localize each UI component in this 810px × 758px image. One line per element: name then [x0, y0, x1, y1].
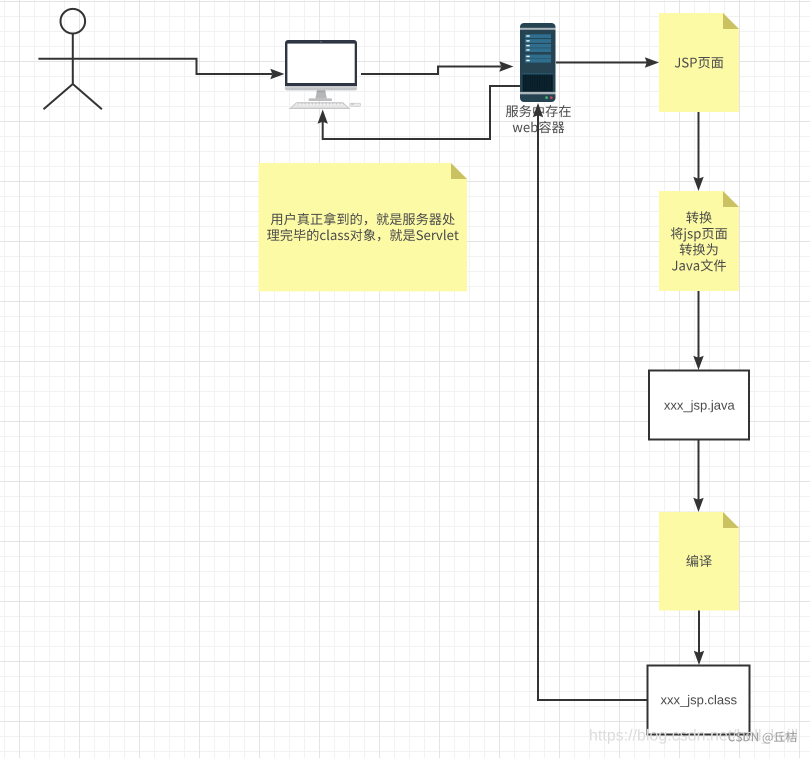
- box xxx_jsp.java: [649, 371, 749, 440]
- box xxx_jsp.class: [648, 666, 750, 735]
- watermark CSDN @丘桔: [728, 731, 796, 743]
- wire server to monitor response: [318, 86, 521, 139]
- note JSP页面: [659, 13, 739, 112]
- label JSP页面: [675, 57, 724, 69]
- actor (user stick figure): [38, 9, 107, 109]
- wire monitor to server: [361, 61, 514, 74]
- wire class box back to server: [533, 103, 648, 700]
- note 编译: [659, 512, 739, 611]
- server tower (web container host): [520, 23, 556, 102]
- label xxx_jsp.java: [664, 400, 735, 412]
- wire convert note to java box: [693, 291, 703, 370]
- wire actor to monitor: [107, 59, 285, 79]
- wire java box to compile note: [693, 440, 703, 512]
- wire server to JSP note: [556, 57, 659, 67]
- server label line2 web容器: [513, 121, 565, 133]
- wire JSP note to convert note: [693, 112, 703, 191]
- note text line2: [267, 229, 459, 242]
- mouse: [350, 103, 361, 106]
- label 转换 line2: [671, 227, 727, 241]
- computer monitor (client PC): [285, 40, 357, 101]
- label 转换 line3: [680, 243, 718, 255]
- label 转换 line1: [686, 211, 712, 223]
- keyboard: [290, 103, 349, 109]
- label 转换 line4: [672, 259, 726, 271]
- note 转换: [659, 191, 739, 291]
- watermark url text: [590, 729, 797, 744]
- note 用户真正拿到的: [259, 163, 468, 291]
- wire compile note to class box: [694, 611, 704, 666]
- note text line1: [271, 213, 455, 226]
- label xxx_jsp.class: [661, 695, 737, 707]
- label 编译: [686, 555, 712, 567]
- server label line1 服务中存在: [506, 105, 571, 117]
